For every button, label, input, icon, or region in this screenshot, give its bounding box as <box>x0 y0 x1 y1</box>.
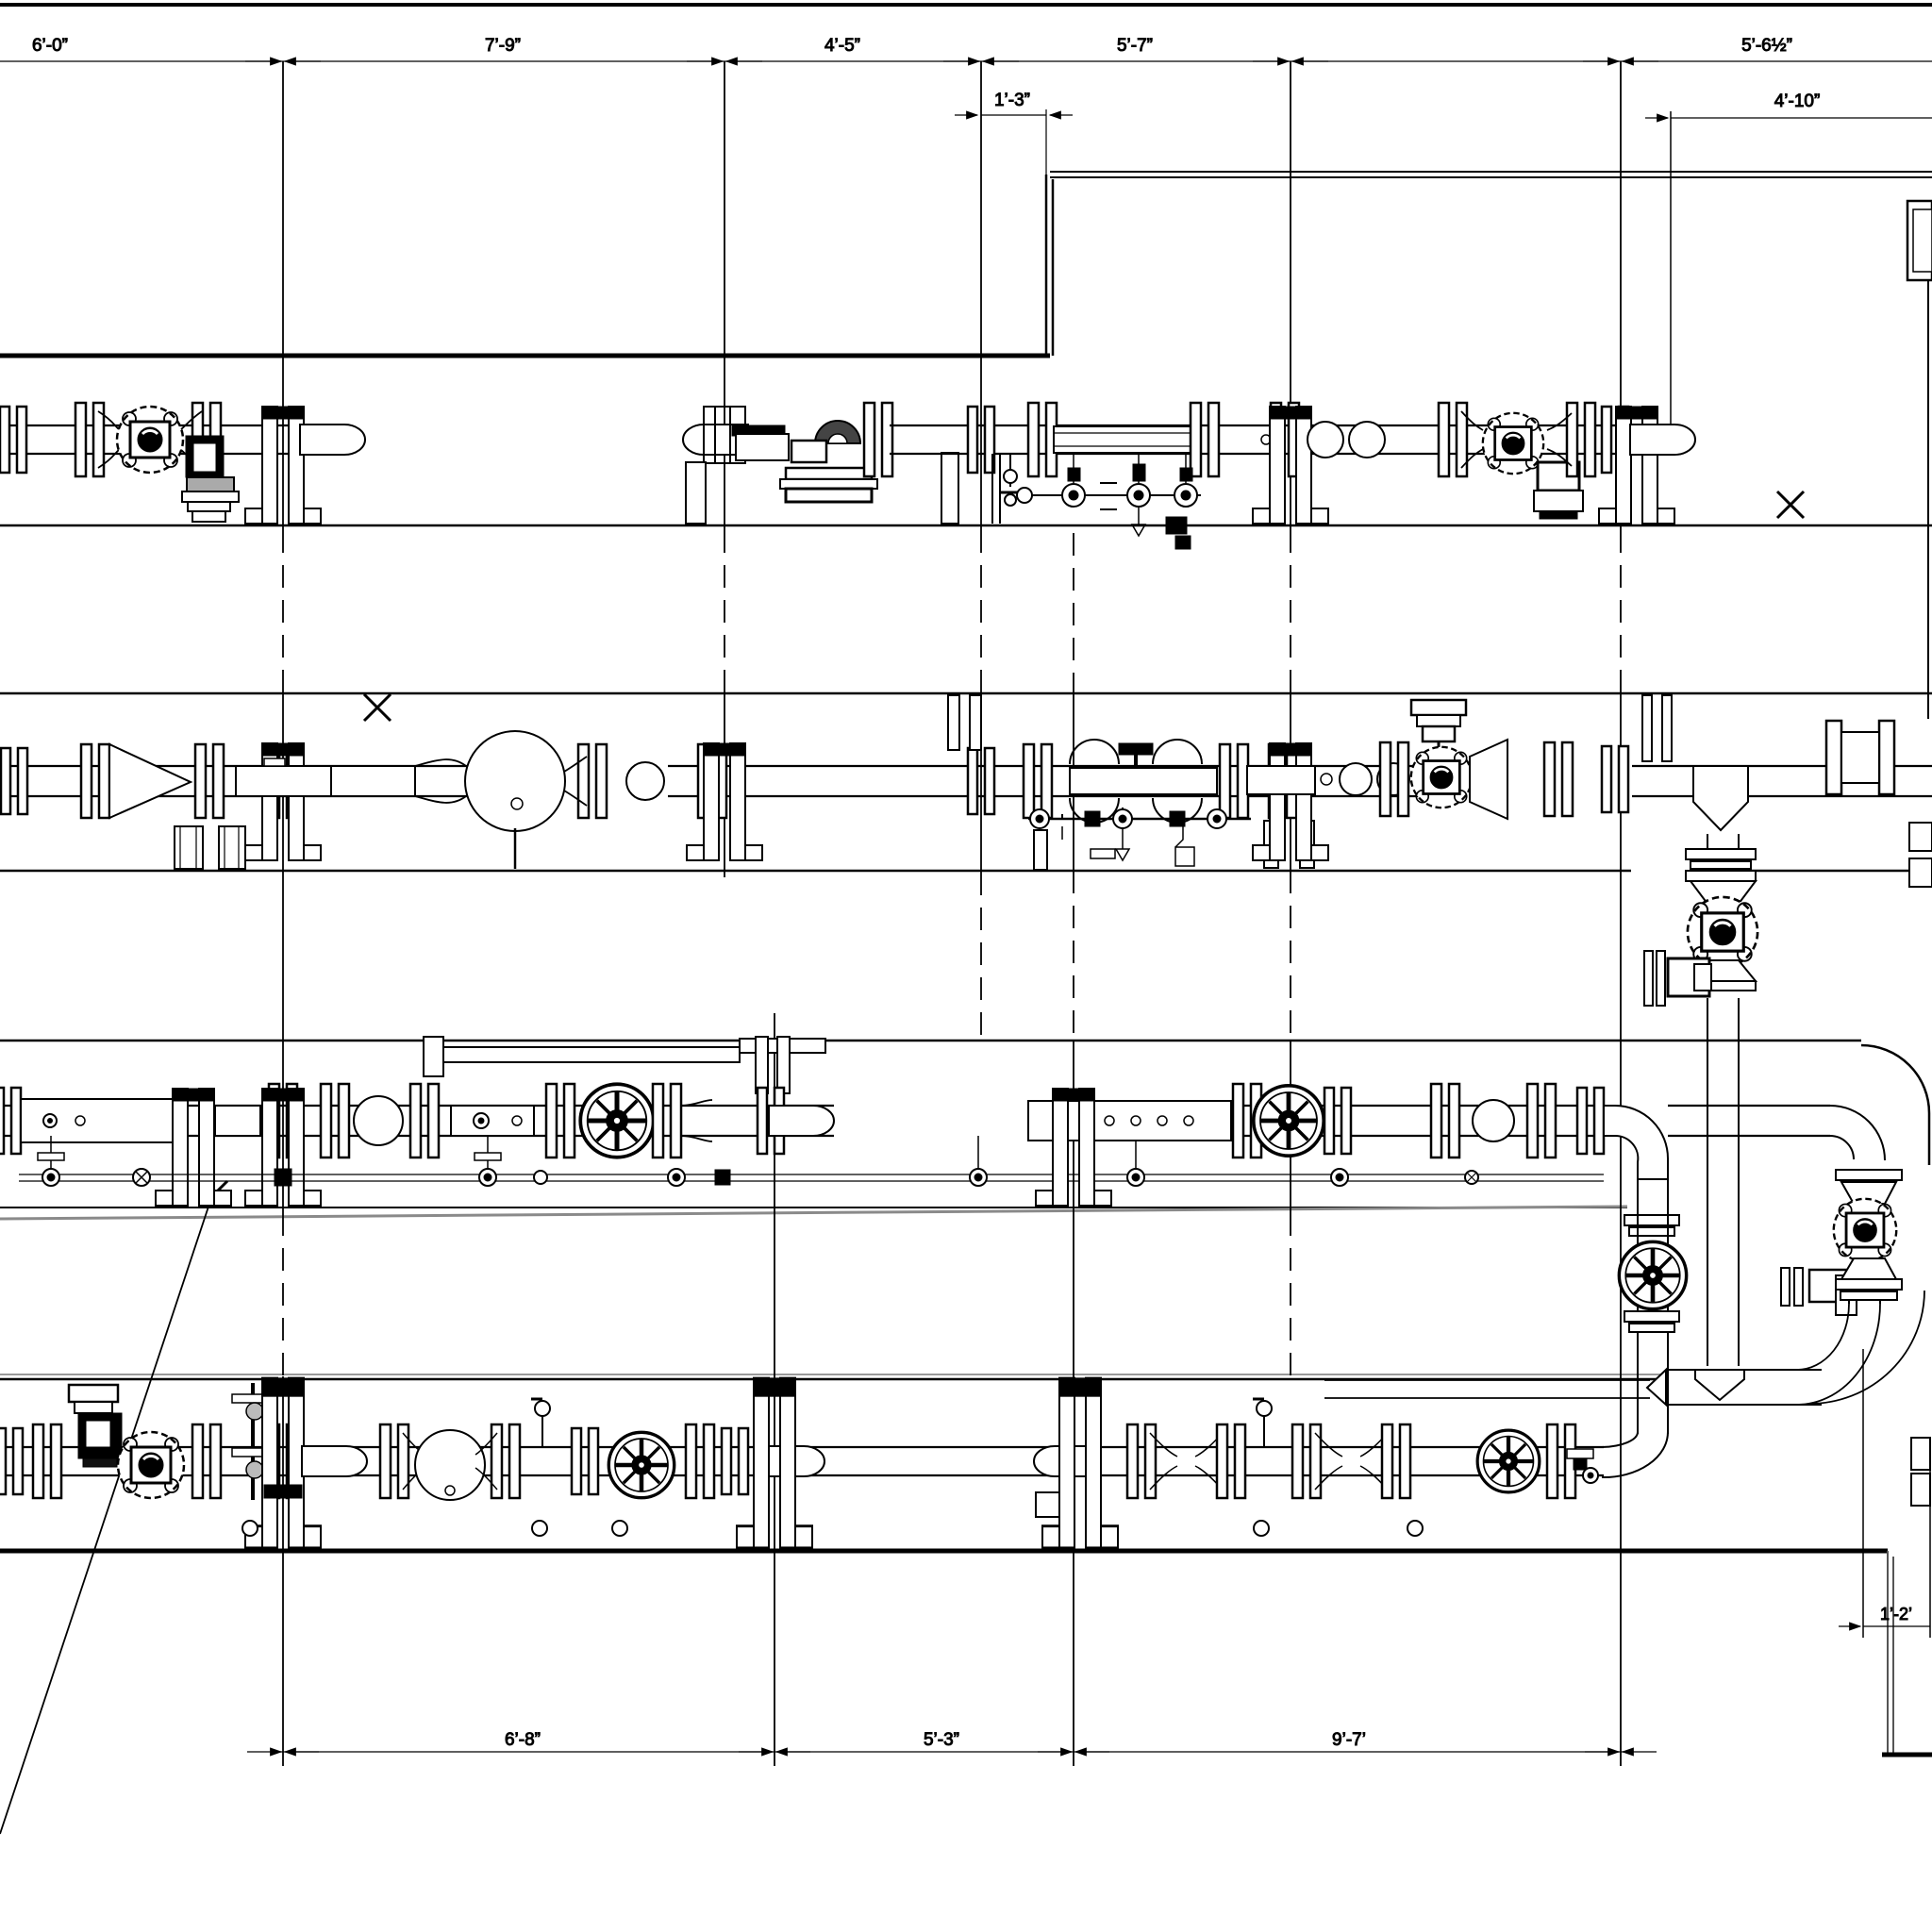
band1 capped end A <box>300 425 365 455</box>
band2 sight circles <box>1247 763 1409 795</box>
centerline x=1138 <box>1073 533 1074 1766</box>
band1 control valve V2 <box>1483 413 1543 474</box>
band4 ball valve left <box>118 1432 184 1498</box>
band4 support at x=300 <box>245 1378 321 1548</box>
vpipe2 cone down <box>1841 1182 1896 1204</box>
crossover pipe horizontal <box>1324 1370 1822 1405</box>
svg-text:4’-5”: 4’-5” <box>824 36 860 56</box>
band3 top rail <box>0 1040 1861 1042</box>
band1 venturi inlet flange <box>1028 403 1057 476</box>
centerline x=300 <box>282 61 284 1766</box>
dimension text 6'-0" <box>32 36 68 56</box>
band1 plug valve spool <box>736 434 789 460</box>
band2 support at x=1368 <box>1253 743 1328 860</box>
svg-text:5’-3”: 5’-3” <box>924 1730 959 1750</box>
band4 pipe <box>0 1447 1604 1475</box>
band1 actuator mounting plates <box>780 468 877 502</box>
band2 cone strainer <box>109 744 191 818</box>
vpipe1 lower flange <box>1686 981 1756 991</box>
band1 flange pair after plug valve <box>864 403 892 476</box>
band3 rack bar <box>424 1037 825 1076</box>
dimension text 9'-7' <box>1332 1730 1366 1750</box>
band1 sight glasses <box>1307 422 1385 458</box>
band4 flange after meter <box>686 1424 748 1498</box>
band3 reducer pair with ball <box>321 1084 439 1158</box>
svg-text:6’-8”: 6’-8” <box>505 1730 541 1750</box>
band4 drain valve up 2 <box>531 1399 550 1447</box>
band2 manifold outlet flange <box>1220 744 1248 818</box>
band3 tie rod clamp x=768 <box>715 1170 730 1185</box>
band2 support at x=768 <box>687 743 762 860</box>
band1 flange pair right of V1 <box>181 403 221 476</box>
band3 support at x=300 <box>245 1084 321 1206</box>
band2 manifold inlet flange <box>1024 744 1052 818</box>
band2 small ball <box>626 762 664 800</box>
band1 reducer flange <box>75 403 119 476</box>
band1 bottom rail <box>0 525 1932 527</box>
band2 rail hangers <box>948 695 1314 870</box>
band4 flange after meter right <box>1547 1424 1575 1498</box>
band3 support at x=205 <box>156 1089 231 1206</box>
band1 capped end B <box>1630 425 1695 455</box>
vertical pipe 1 from band2 tee <box>1707 834 1739 1366</box>
band1 reducer to control valve <box>1439 403 1483 476</box>
band3 perforated tube <box>1028 1101 1231 1141</box>
band1 venturi outlet flange <box>1191 403 1219 476</box>
vpipe2 elbow to crossover <box>1797 1291 1924 1405</box>
band1 flange pair before cap <box>1547 403 1595 476</box>
band3 tie rod valve 9 <box>1465 1171 1478 1184</box>
dimension text 4'-5" <box>824 36 860 56</box>
band1 support at x=1056 <box>992 454 1000 524</box>
band2 flange pair left <box>1 748 27 814</box>
band4 top rail <box>0 1378 1662 1381</box>
band1 support at x=300 <box>245 407 321 524</box>
band3 riser meter <box>1619 1241 1686 1308</box>
band2 reducer after ball <box>564 744 607 818</box>
band4 spoked meter left <box>608 1432 674 1497</box>
band2 pipe mid <box>668 766 1443 796</box>
band1 ball valve V1 <box>117 407 183 473</box>
vpipe1 cone up <box>1690 960 1756 981</box>
diagonal leader line <box>0 1195 212 1834</box>
vpipe2 pipe <box>1849 1300 1880 1304</box>
band2 bottom rail <box>0 870 1932 873</box>
band3 spool <box>215 1106 260 1136</box>
dimension text 5'-3" <box>924 1730 959 1750</box>
band1 flange pair at x=1040 <box>968 407 994 473</box>
crossover reducer funnel <box>1647 1370 1666 1405</box>
vpipe2 cone up <box>1841 1258 1896 1279</box>
band1 top rail <box>0 354 1050 358</box>
svg-text:9’-7’: 9’-7’ <box>1332 1730 1366 1750</box>
band1 bypass actuator below V1 <box>182 436 239 522</box>
bottom dimension line <box>247 1751 1657 1753</box>
band4 spoked meter right <box>1477 1430 1540 1492</box>
band3 right frame bend <box>1861 1045 1929 1165</box>
band1 pipe train B <box>890 425 1646 454</box>
skid outline step vertical <box>1046 175 1053 356</box>
band4 flange mid <box>572 1428 598 1494</box>
band3 riser pipe <box>1638 1179 1668 1434</box>
band3 tie rod valve 5 <box>668 1169 685 1186</box>
band3 tie rod valve 8 <box>1331 1169 1348 1186</box>
band4 top gray line <box>0 1374 1662 1375</box>
skid top edge line <box>0 3 1932 7</box>
x mark band2 left <box>364 694 391 721</box>
band4 drain valve up 3 <box>1253 1399 1272 1447</box>
band2 support at x=300 <box>245 743 321 860</box>
band4 elbow fitting 2 <box>759 1446 824 1476</box>
band1 pipe train A <box>0 425 311 454</box>
band3 tie rod valve 7 <box>1127 1141 1144 1186</box>
band3 flange after meter2 <box>1324 1088 1351 1154</box>
band2 globe valve body <box>1380 740 1507 819</box>
band4 elbow fitting <box>302 1446 367 1476</box>
band3 bottom rail <box>0 1207 1627 1208</box>
band4 drain valve up 1 <box>232 1383 266 1500</box>
band4 elbow piece right half <box>1034 1446 1099 1517</box>
band4 support at x=1138 <box>1042 1378 1118 1548</box>
vpipe1 side actuator <box>1644 951 1711 1006</box>
band3 train A cap <box>769 1106 834 1136</box>
band4 flange left <box>0 1424 61 1498</box>
dimension text 5'-6 1/2" <box>1741 36 1792 56</box>
band3 flange before meter2 <box>1233 1084 1261 1158</box>
band3 riser flange top <box>1624 1215 1679 1236</box>
band2 reducer to ball <box>415 759 466 803</box>
band1 support at x=1735 <box>1599 407 1674 524</box>
band4 valve actuator assembly <box>69 1385 122 1467</box>
svg-text:6’-0”: 6’-0” <box>32 36 68 56</box>
band3 reducer pair right <box>1431 1084 1556 1158</box>
band4 drain valves below <box>242 1521 1423 1536</box>
band4 reducer to ball2 <box>380 1424 425 1498</box>
band2 flange pair right <box>1602 746 1628 812</box>
vpipe1 bottom tee <box>1695 1370 1744 1400</box>
band3 right elbow down <box>1830 1106 1885 1160</box>
dimension 4'-10" <box>1645 92 1932 426</box>
x mark band1 right <box>1777 491 1804 518</box>
band3 tie rod valve 2 <box>133 1169 150 1186</box>
band3 flange right <box>1577 1088 1604 1154</box>
svg-text:7’-9”: 7’-9” <box>485 36 521 56</box>
centerline x=1718 <box>1620 61 1622 1766</box>
right edge frame line <box>1927 279 1929 719</box>
vpipe1 ball valve <box>1688 897 1757 967</box>
band2 reducer after globe <box>1544 742 1573 816</box>
band1 support flange at x=1368 <box>1253 403 1328 524</box>
band1 drain valve below pipe <box>1000 454 1021 506</box>
band3 tie rod valve 4 <box>534 1171 547 1184</box>
band2 pipe right <box>1632 766 1932 796</box>
band2 pipe left <box>0 766 528 796</box>
band1 venturi tube <box>1054 426 1191 453</box>
centerline x=768 <box>724 61 725 877</box>
band4 support at x=821 <box>737 1378 812 1548</box>
svg-text:1’-2’: 1’-2’ <box>1880 1605 1912 1624</box>
band3 spoked meter left <box>546 1084 654 1158</box>
band3 tie rod valve 3 <box>475 1136 501 1186</box>
band3 elbow down right <box>1604 1106 1668 1179</box>
band2 manifold twin balls <box>1070 740 1217 823</box>
step line bracket top right <box>1907 201 1932 280</box>
band1 flange pair left <box>0 407 26 473</box>
band2 support hangers right <box>1642 695 1672 761</box>
band2 flange at x=1040 <box>968 748 994 814</box>
band3 flange left <box>0 1088 21 1154</box>
band3 train A end flange <box>758 1088 784 1154</box>
band3 riser flange bottom <box>1624 1311 1679 1332</box>
band2 control valve actuator stack <box>1411 700 1466 755</box>
band3 flange after meter <box>653 1084 712 1158</box>
band3 tie rod valve 6 <box>970 1136 987 1186</box>
band3 tie rod line <box>19 1174 1604 1181</box>
right edge outlet bracket <box>1911 1438 1930 1506</box>
band1 sight circle small <box>1261 435 1271 444</box>
band2 spool <box>236 758 415 796</box>
band1 plug valve dark pipe <box>732 425 785 436</box>
band3 tie rod valve 1 <box>38 1136 64 1186</box>
bottom right step horizontal <box>1882 1753 1932 1757</box>
vpipe2 lower flange <box>1836 1279 1902 1300</box>
band3 spoked meter right <box>1254 1086 1324 1156</box>
band2 top rail <box>0 692 1932 695</box>
band2 strainer inlet flange <box>81 744 109 818</box>
band1 support at x=768 <box>686 407 958 524</box>
vpipe2 ball valve <box>1834 1199 1897 1262</box>
band3 support at x=1138 <box>1036 1089 1111 1206</box>
band4 reducer pair A <box>1127 1424 1245 1498</box>
vpipe1 cone down <box>1690 881 1756 904</box>
vpipe2 side actuator <box>1781 1268 1857 1315</box>
skid outline step horizontal <box>1050 172 1932 177</box>
band2 tee elbow down <box>1693 766 1748 830</box>
svg-text:1’-3”: 1’-3” <box>994 91 1030 110</box>
dimension text 6'-8" <box>505 1730 541 1750</box>
bottom right step vertical <box>1888 1551 1893 1755</box>
band4 reducer pair B <box>1292 1424 1410 1498</box>
svg-text:5’-6½”: 5’-6½” <box>1741 36 1792 56</box>
centerline x=821 <box>774 1013 775 1766</box>
band3 meter tube <box>21 1099 181 1142</box>
vpipe2 upper flange <box>1836 1170 1902 1180</box>
band4 elbow up right <box>1602 1432 1668 1477</box>
band1 V2 actuator boxes <box>1534 462 1583 519</box>
band3 spool with bolts <box>451 1106 534 1136</box>
band1 train B capped start <box>683 425 748 455</box>
band2 flange pair after strainer <box>195 744 224 818</box>
band1 actuator gear motor <box>791 421 860 462</box>
band2 right end flange set <box>1826 721 1894 794</box>
dimension 1'-2' <box>1839 1349 1930 1638</box>
band4 reducer after ball2 <box>475 1424 520 1498</box>
band3 pipe left <box>0 1106 1830 1136</box>
band4 elbow drain valve <box>1567 1449 1598 1483</box>
band2 manifold drain valves <box>1028 808 1251 866</box>
band4 flange after ball <box>192 1424 221 1498</box>
dimension text 5'-7" <box>1117 36 1153 56</box>
band3 support columns x=821 <box>756 1037 790 1093</box>
band2 right edge bracket <box>1909 823 1932 887</box>
top dimension line <box>0 60 1932 62</box>
vpipe1 flange stack <box>1686 849 1756 881</box>
band4 large ball 2 <box>415 1430 485 1500</box>
svg-text:4’-10”: 4’-10” <box>1774 92 1821 111</box>
dimension 1'-3" <box>955 91 1073 175</box>
band1 instrument manifold below venturi <box>1017 454 1201 549</box>
dimension text 7'-9" <box>485 36 521 56</box>
centerline x=1040 <box>980 61 982 1041</box>
band2 support feet left <box>175 826 245 869</box>
x mark band3 left <box>201 1181 227 1207</box>
band2 large ball body <box>465 731 565 869</box>
band4 bottom rail <box>0 1549 1888 1554</box>
band3 tie rod clamp x=300 <box>275 1169 291 1186</box>
centerline x=1368 <box>1290 61 1291 1376</box>
band3 lower gray line <box>0 1207 1627 1219</box>
svg-text:5’-7”: 5’-7” <box>1117 36 1153 56</box>
